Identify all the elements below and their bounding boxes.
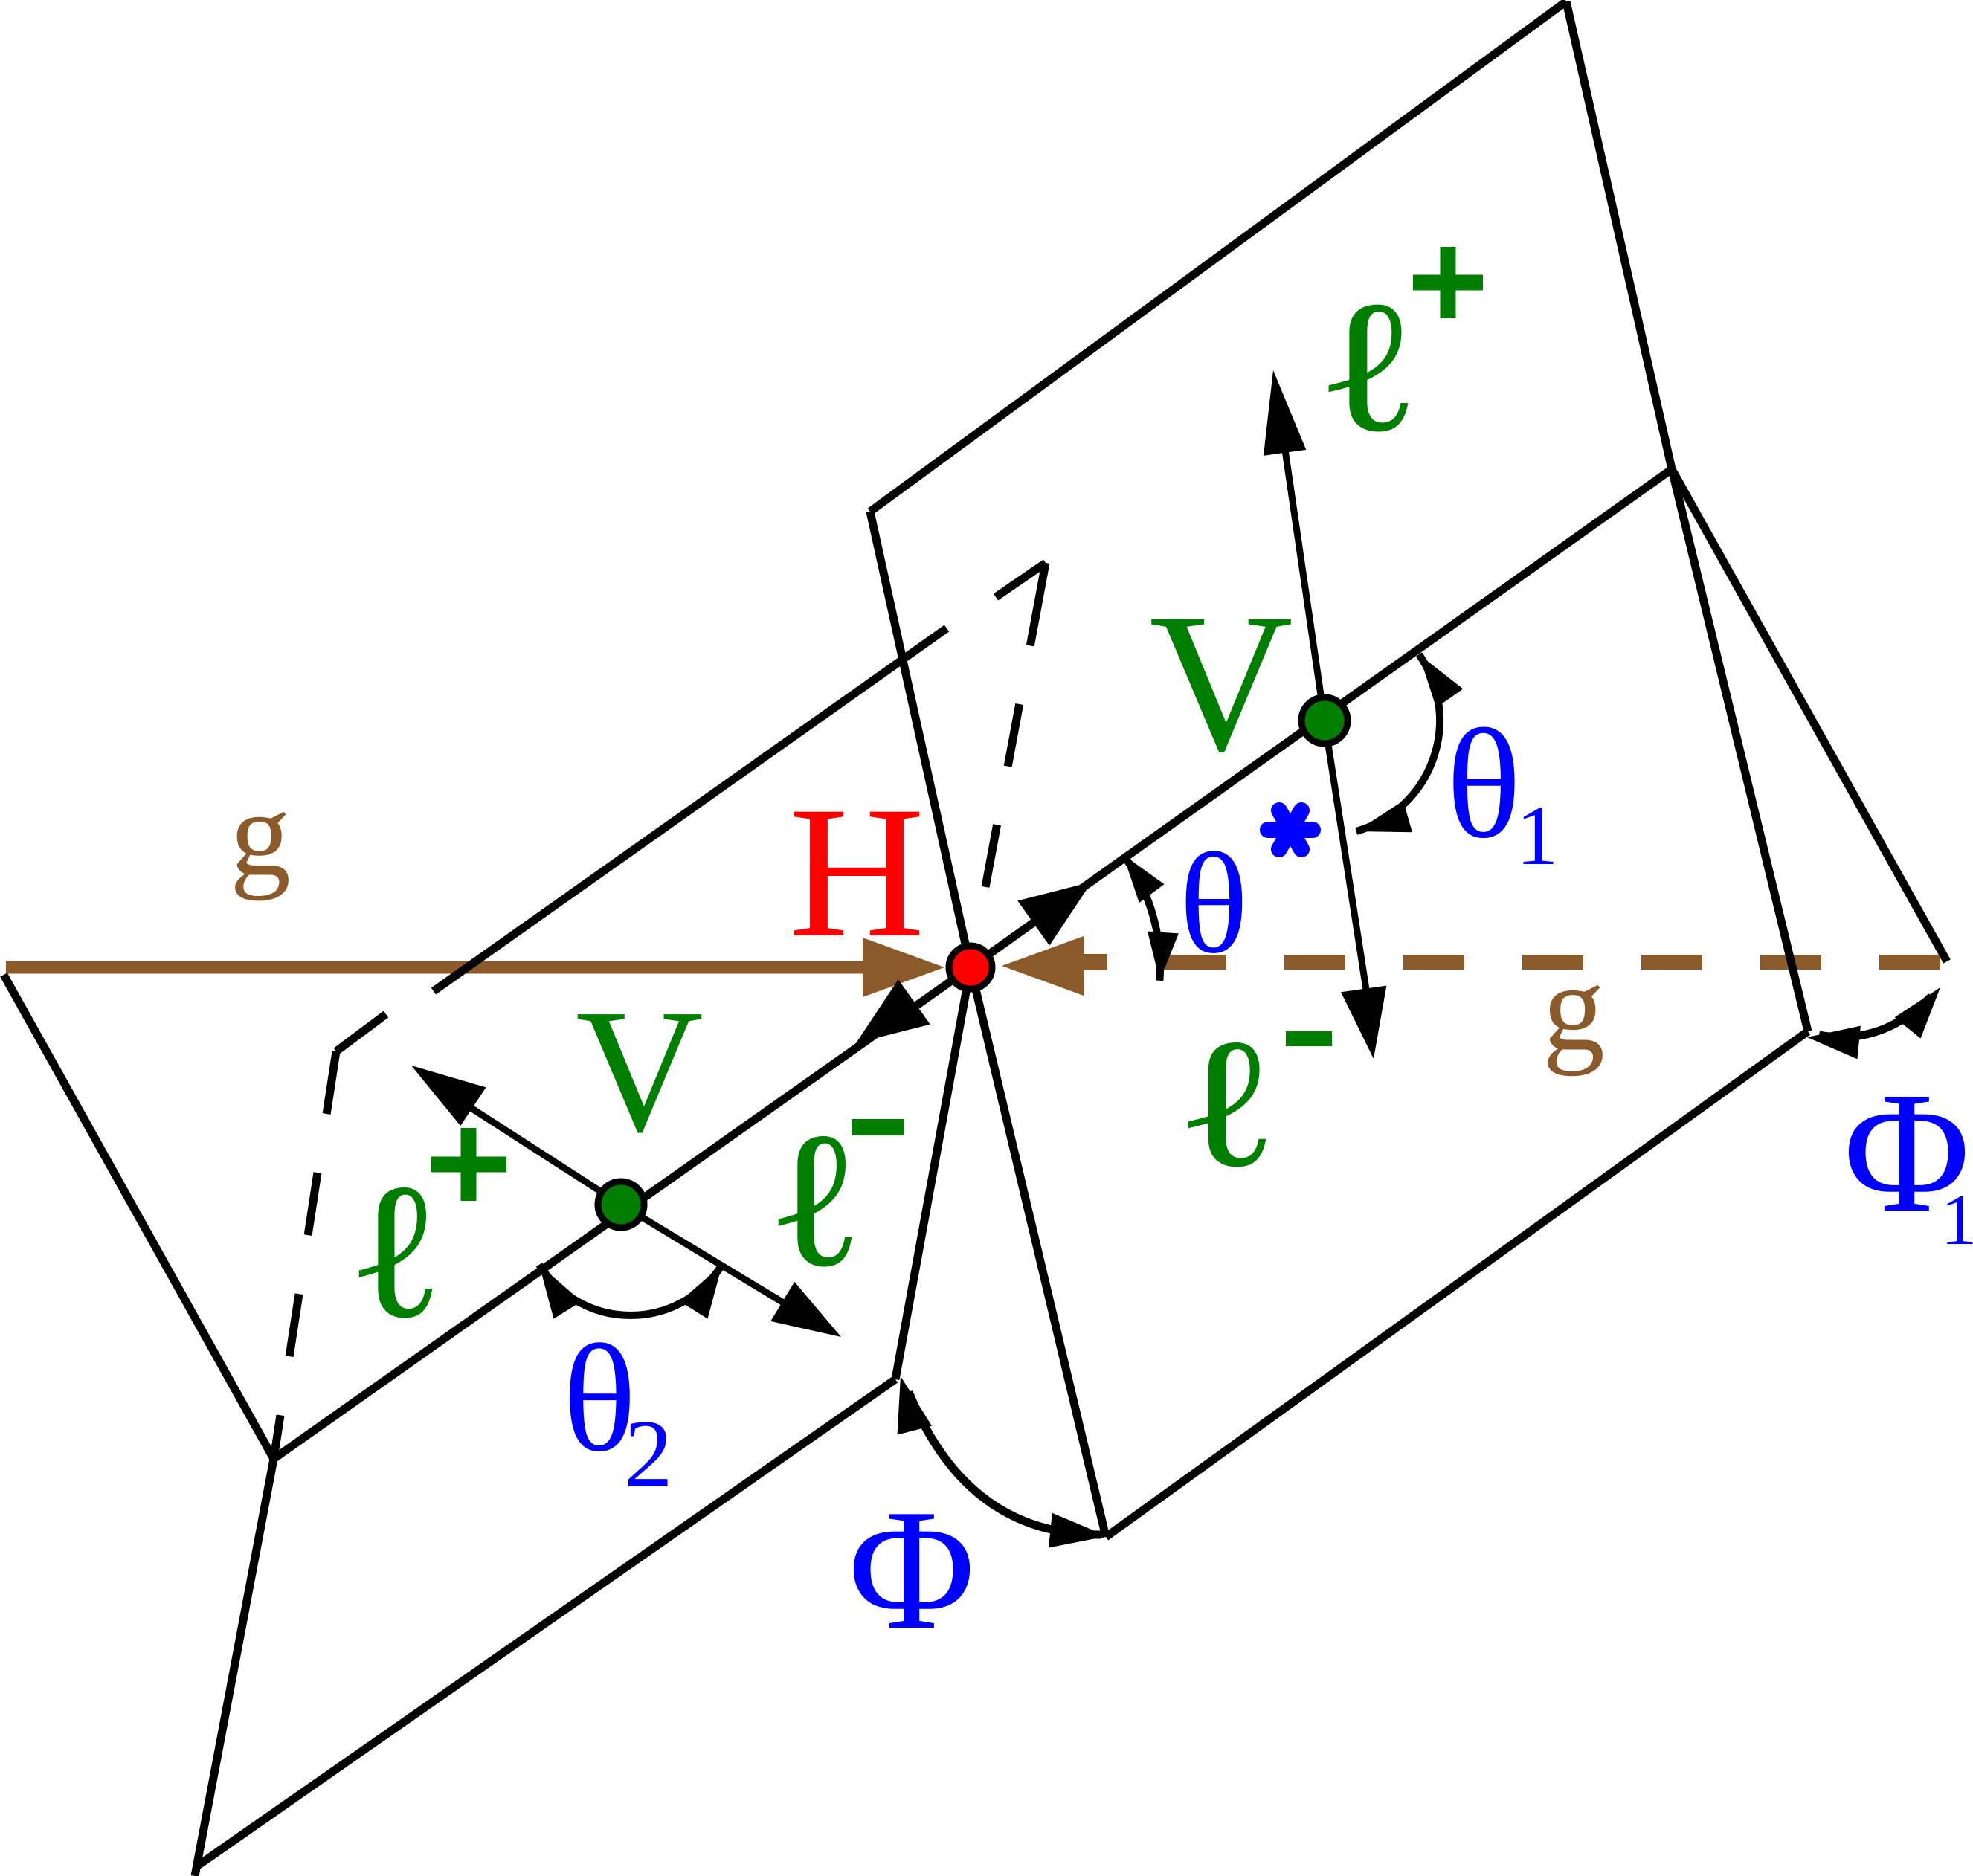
label l- left plane: minus sign [852,1119,904,1135]
lepton l- arrowhead (left plane) [770,1282,841,1337]
svg-text:θ: θ [1179,823,1249,983]
lepton l+ arrowhead (right plane) [1264,370,1306,456]
angle Phi arc between decay planes [909,1392,1101,1535]
angle theta-2 arc at V2 [539,1265,722,1315]
label l+ left: plus sign [431,1128,506,1201]
H vertex red dot [949,946,992,989]
beam plane right edge R-P2 [1672,469,1947,961]
angle theta-1 arc at V1 [1356,654,1440,831]
svg-text:Φ: Φ [849,1474,975,1666]
svg-text:ℓ: ℓ [347,1144,445,1358]
label l- right plane: minus sign [1286,1031,1332,1046]
svg-text:1: 1 [1941,1180,1973,1260]
lepton l- line from V2 [621,1205,796,1310]
svg-text:ℓ: ℓ [1316,262,1421,471]
svg-text:2: 2 [624,1400,673,1508]
decay plane 1 left edge L-H [870,512,971,967]
svg-text:1: 1 [1516,788,1559,883]
decay plane 2 lower far edge BL-F [198,1379,895,1866]
decay plane 2 top edge hidden dash Q-Qp [996,563,1046,597]
wire: gluon beam axis (left, solid brown) [6,961,864,974]
VV axis H-R through V1 [971,469,1672,967]
gluon g left arrowhead into H [863,938,944,997]
VV axis H-Ca through V2 [274,967,971,1459]
svg-text:H: H [788,767,924,976]
wire: gluon beam axis (right, dashed brown) [1165,955,1945,970]
V1 momentum arrowhead on axis [1017,882,1092,946]
decay plane 1 right edge extension R-P1 [1672,469,1808,1031]
lepton l- arrowhead (right plane) [1341,986,1386,1059]
decay plane 1 right edge T-R [1566,1,1672,469]
V1 vertex green dot [1301,697,1348,744]
decay plane 2 right edge hidden extension H-Qp dashed [971,563,1046,967]
decay plane 2 right edge extension H-F [895,967,971,1379]
svg-text:g: g [230,767,291,901]
decay plane 1 lower far edge B-P1 [1106,1031,1808,1537]
lepton l- line from V1 [1325,721,1368,1004]
gluon right tail bar [1084,954,1107,970]
label l+ right: plus sign [1413,247,1483,318]
gluon g right arrowhead into H [1002,936,1084,996]
lepton l+ line from V2 [454,1097,621,1205]
svg-text:g: g [1542,938,1605,1077]
angle theta-star arc at H [1123,854,1160,981]
decay plane 2 hidden left edge D1-Ca dashed [274,1051,336,1459]
V2 momentum arrowhead on axis [856,979,930,1043]
svg-text:V: V [576,973,704,1169]
angle Phi-1 arc between decay plane 1 and beam plane [1819,996,1931,1037]
V2 vertex green dot [598,1182,644,1228]
decay plane 1 top edge L-T [870,1,1566,512]
svg-text:ℓ: ℓ [1175,1001,1278,1205]
lepton l+ arrowhead (left plane) [411,1066,486,1126]
decay plane 2 top edge (solid part) A1-Q [434,628,947,991]
decay plane 1 left edge extension H-B [971,967,1106,1537]
svg-text:V: V [1149,572,1293,793]
lepton l+ line from V1 [1281,419,1325,721]
theta-star asterisk (6 petals) [1268,810,1313,849]
svg-text:θ: θ [1446,697,1521,871]
svg-text:ℓ: ℓ [767,1092,864,1307]
decay plane 2 left edge extension Ca-BL [195,1459,274,1876]
beam plane left edge TL-Ca [4,975,274,1459]
decay plane 2 top edge hidden dash A1-D1 [336,1014,386,1051]
